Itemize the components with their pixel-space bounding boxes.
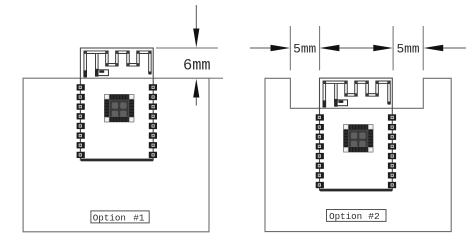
svg-text:#2: #2: [368, 211, 380, 222]
svg-text:#1: #1: [133, 212, 145, 223]
svg-text:5mm: 5mm: [396, 41, 419, 56]
svg-text:5mm: 5mm: [293, 41, 316, 56]
svg-text:6mm: 6mm: [183, 56, 211, 74]
svg-text:Option: Option: [329, 211, 362, 222]
svg-text:Option: Option: [93, 212, 126, 223]
